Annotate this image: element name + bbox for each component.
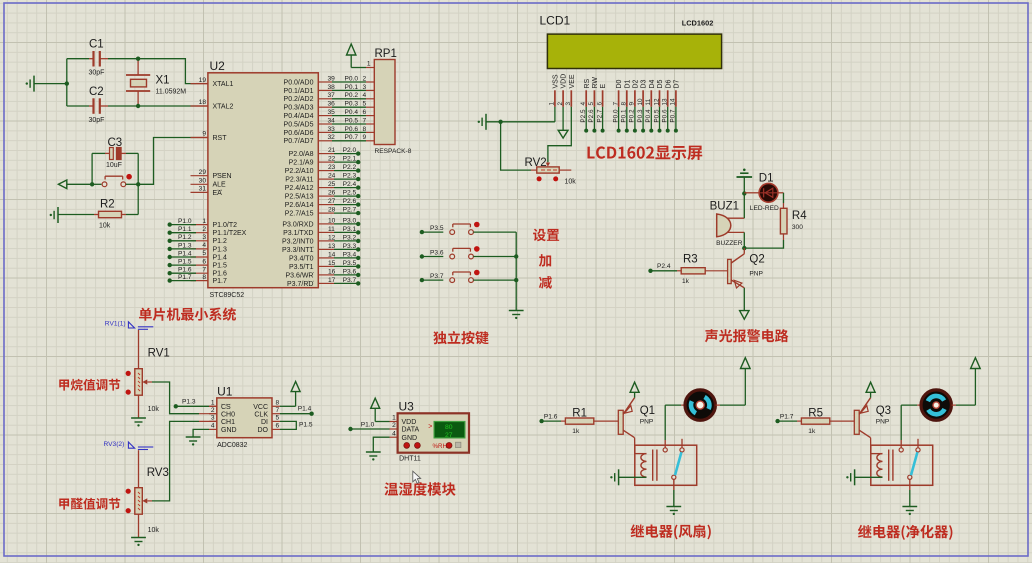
svg-text:10k: 10k <box>148 527 160 534</box>
svg-text:P0.6/AD6: P0.6/AD6 <box>284 130 314 137</box>
svg-text:11.0592M: 11.0592M <box>156 89 187 96</box>
wire buttons common <box>515 232 517 310</box>
ground (ADC) <box>186 437 201 446</box>
wire DHT GND <box>373 437 397 451</box>
svg-text:9: 9 <box>629 102 636 106</box>
svg-text:P1.3: P1.3 <box>213 246 228 253</box>
svg-text:P2.0/A8: P2.0/A8 <box>289 151 314 158</box>
svg-text:D4: D4 <box>649 79 656 88</box>
svg-text:2: 2 <box>363 75 367 82</box>
svg-text:4: 4 <box>202 242 206 249</box>
svg-text:BUZ1: BUZ1 <box>710 201 739 213</box>
svg-text:D7: D7 <box>674 79 681 88</box>
mcu U2 P3 pin names <box>282 221 314 287</box>
pot RV2 buttons <box>537 176 559 181</box>
node C1-X1 <box>136 57 140 61</box>
svg-text:28: 28 <box>328 207 336 214</box>
svg-text:10: 10 <box>637 98 644 106</box>
svg-text:U2: U2 <box>210 59 226 73</box>
svg-text:7: 7 <box>202 266 206 273</box>
svg-text:P2.0: P2.0 <box>343 147 357 154</box>
svg-text:GND: GND <box>402 435 418 442</box>
capacitor C2 <box>67 86 138 124</box>
resistor R4 <box>780 208 807 234</box>
svg-text:VSS: VSS <box>553 74 560 88</box>
svg-text:P2.6/A14: P2.6/A14 <box>285 202 314 209</box>
resistor R2 <box>94 199 138 230</box>
svg-text:CH1: CH1 <box>221 419 235 426</box>
mcu U2 body <box>208 73 318 288</box>
node reset right <box>136 182 140 186</box>
svg-text:P1.6: P1.6 <box>213 271 228 278</box>
wire C3 right down <box>137 153 139 184</box>
dht U3 body <box>398 413 469 452</box>
wire CLK P1.4 <box>280 406 314 416</box>
svg-text:8: 8 <box>621 102 628 106</box>
svg-text:1: 1 <box>367 61 371 68</box>
svg-text:6: 6 <box>596 102 603 106</box>
wire P1.0-DATA <box>351 428 398 430</box>
relay body <box>635 445 697 485</box>
svg-text:32: 32 <box>328 134 336 141</box>
svg-text:Q2: Q2 <box>749 254 764 266</box>
motor <box>921 390 951 420</box>
svg-text:P3.7: P3.7 <box>343 277 357 284</box>
svg-text:P3.6/WR: P3.6/WR <box>285 272 313 279</box>
svg-text:%RH: %RH <box>433 443 447 450</box>
svg-text:RST: RST <box>213 135 228 142</box>
resistor R3 <box>651 254 728 286</box>
svg-text:>: > <box>428 424 432 431</box>
svg-text:4: 4 <box>211 423 215 430</box>
svg-text:24: 24 <box>328 173 336 180</box>
svg-text:3: 3 <box>211 415 215 422</box>
svg-text:P1.5: P1.5 <box>213 263 228 270</box>
ground (relay coil) <box>846 469 882 485</box>
svg-text:P1.7: P1.7 <box>178 274 192 281</box>
svg-text:10k: 10k <box>565 179 577 186</box>
svg-text:R4: R4 <box>792 210 807 222</box>
svg-text:RV1: RV1 <box>148 348 170 360</box>
svg-text:BUZZER: BUZZER <box>716 240 743 247</box>
wire relay common to ground <box>673 490 675 506</box>
svg-text:P3.5: P3.5 <box>430 225 444 232</box>
svg-text:PSEN: PSEN <box>213 173 232 180</box>
svg-text:300: 300 <box>792 224 803 231</box>
svg-text:36: 36 <box>328 101 336 108</box>
svg-text:PNP: PNP <box>640 419 654 426</box>
label JiaWan <box>59 379 120 391</box>
svg-text:10k: 10k <box>148 406 160 413</box>
label LCD1602 caption <box>587 146 702 160</box>
wire Q2 emitter down <box>743 288 745 311</box>
svg-text:8: 8 <box>276 400 280 407</box>
wire RP1 pin1 <box>351 67 374 69</box>
svg-text:30pF: 30pF <box>89 117 105 124</box>
push button reset <box>92 174 132 187</box>
svg-text:P3.0/RXD: P3.0/RXD <box>282 221 313 228</box>
svg-text:6: 6 <box>202 258 206 265</box>
svg-text:D5: D5 <box>657 79 664 88</box>
svg-text:80: 80 <box>445 424 453 431</box>
svg-text:14: 14 <box>670 98 677 106</box>
svg-text:U1: U1 <box>217 385 233 399</box>
wire RV3 top <box>138 450 140 488</box>
svg-text:D0: D0 <box>616 79 623 88</box>
wire R2 up <box>137 184 139 214</box>
wire XTAL1 pin stub <box>196 83 208 85</box>
svg-text:P1.4: P1.4 <box>298 406 312 413</box>
svg-text:EA: EA <box>213 190 223 197</box>
mouse cursor <box>413 471 421 483</box>
wire RV2 left <box>501 122 537 170</box>
svg-text:DATA: DATA <box>402 427 420 434</box>
wire RST <box>138 138 208 185</box>
svg-text:X1: X1 <box>156 75 170 87</box>
svg-text:P0.5: P0.5 <box>653 109 660 123</box>
svg-text:P2.5/A13: P2.5/A13 <box>285 194 314 201</box>
wire BUZ bottom <box>743 232 745 248</box>
svg-text:P1.7: P1.7 <box>780 413 794 420</box>
svg-text:P1.5: P1.5 <box>178 259 192 266</box>
svg-text:P3.0: P3.0 <box>343 217 357 224</box>
relay blade <box>675 452 681 475</box>
node btn3 <box>514 278 518 282</box>
svg-text:P2.3/A11: P2.3/A11 <box>285 177 313 184</box>
svg-text:R2: R2 <box>100 199 115 211</box>
svg-text:D1: D1 <box>624 79 631 88</box>
wire D1 to R4 <box>778 193 784 209</box>
pot RV2 body <box>525 157 560 173</box>
svg-text:P1.5: P1.5 <box>299 422 313 429</box>
mcu U2 P2 pin names <box>285 151 314 218</box>
svg-text:P2.1: P2.1 <box>343 156 357 163</box>
svg-text:P0.5: P0.5 <box>345 117 359 124</box>
svg-text:P0.2: P0.2 <box>629 109 636 123</box>
svg-text:7: 7 <box>276 407 280 414</box>
ground arrow (reset) <box>58 180 92 189</box>
pot RV3 <box>126 467 169 534</box>
svg-text:P1.1/T2EX: P1.1/T2EX <box>213 230 247 237</box>
svg-text:PNP: PNP <box>749 271 763 278</box>
svg-text:VEE: VEE <box>569 74 576 88</box>
relay contacts <box>663 439 684 490</box>
svg-text:12: 12 <box>653 98 660 106</box>
svg-text:5: 5 <box>202 250 206 257</box>
wire relay NO up to motor <box>665 405 685 440</box>
svg-text:31: 31 <box>199 186 207 193</box>
wire motor to power <box>716 369 746 406</box>
ground (buttons) <box>509 311 524 320</box>
relay body <box>871 445 933 485</box>
svg-text:P0.6: P0.6 <box>662 109 669 123</box>
node P2.4 <box>648 269 652 273</box>
relay contacts <box>899 439 920 490</box>
label SheZhi <box>533 229 559 242</box>
svg-text:VDD: VDD <box>402 419 417 426</box>
svg-text:RP1: RP1 <box>375 48 397 60</box>
svg-text:XTAL1: XTAL1 <box>213 81 234 88</box>
svg-text:P3.3/INT1: P3.3/INT1 <box>282 247 314 254</box>
svg-text:P0.1: P0.1 <box>345 84 359 91</box>
svg-text:ADC0832: ADC0832 <box>217 442 247 449</box>
svg-text:U3: U3 <box>399 400 415 414</box>
svg-text:D6: D6 <box>665 79 672 88</box>
svg-text:P2.7: P2.7 <box>596 109 603 123</box>
pot RV1 <box>126 348 170 414</box>
svg-text:10k: 10k <box>99 223 111 230</box>
respack RP1 body <box>374 60 395 145</box>
svg-text:2: 2 <box>557 102 564 106</box>
svg-text:GND: GND <box>221 427 237 434</box>
svg-text:RW: RW <box>592 77 599 89</box>
resistor R1 <box>542 408 619 435</box>
pot RV2 wiper arrow <box>546 162 550 166</box>
label ShengGuangBaoJing <box>705 329 789 342</box>
ground (R2) <box>50 207 94 223</box>
svg-text:P0.2/AD2: P0.2/AD2 <box>284 96 314 103</box>
resistor R5 <box>778 408 855 435</box>
wire DI-DO P1.5 <box>280 421 313 429</box>
power symbol (ADC VCC) <box>280 382 300 407</box>
node P1.0 <box>348 427 352 431</box>
svg-text:P0.5/AD5: P0.5/AD5 <box>284 121 314 128</box>
svg-text:37: 37 <box>328 92 336 99</box>
svg-text:P0.7: P0.7 <box>670 109 677 123</box>
svg-text:8: 8 <box>363 126 367 133</box>
svg-text:P2.7/A15: P2.7/A15 <box>285 211 314 218</box>
svg-text:P0.1: P0.1 <box>621 109 628 123</box>
svg-text:VDD: VDD <box>561 74 568 89</box>
svg-text:ALE: ALE <box>213 182 227 189</box>
svg-text:4: 4 <box>392 430 396 437</box>
svg-text:RV1(1): RV1(1) <box>105 321 126 328</box>
svg-text:XTAL2: XTAL2 <box>213 103 234 110</box>
svg-text:P0.7/AD7: P0.7/AD7 <box>284 138 314 145</box>
svg-text:P0.0/AD0: P0.0/AD0 <box>284 79 314 86</box>
buzzer BUZ1 <box>710 201 745 248</box>
wires P2.0-P2.7 with node dots <box>318 147 360 215</box>
svg-text:P1.7: P1.7 <box>213 278 228 285</box>
label Jia <box>539 254 551 267</box>
svg-text:C1: C1 <box>89 39 104 51</box>
ground (DHT) <box>366 452 381 461</box>
svg-text:P3.3: P3.3 <box>343 243 357 250</box>
svg-text:9: 9 <box>363 134 367 141</box>
svg-text:PNP: PNP <box>876 419 890 426</box>
svg-text:LED-RED: LED-RED <box>750 205 779 212</box>
svg-text:P2.5: P2.5 <box>580 109 587 123</box>
wire P1.3-CS <box>176 405 217 407</box>
svg-text:P0.2: P0.2 <box>345 92 359 99</box>
svg-text:14: 14 <box>328 251 336 258</box>
svg-text:P2.4/A12: P2.4/A12 <box>285 185 314 192</box>
svg-text:P1.1: P1.1 <box>178 226 192 233</box>
svg-text:LCD1: LCD1 <box>540 14 571 28</box>
capacitor C1 <box>67 39 138 77</box>
node btn2 <box>514 254 518 258</box>
svg-text:11: 11 <box>645 98 652 105</box>
svg-text:Q1: Q1 <box>640 405 655 417</box>
svg-text:P2.7: P2.7 <box>343 207 357 214</box>
svg-text:RS: RS <box>584 78 591 88</box>
wires P3.0-P3.7 with node dots <box>318 217 360 285</box>
svg-text:5: 5 <box>588 102 595 106</box>
svg-text:38: 38 <box>328 84 336 91</box>
wire DHT VDD stub <box>390 421 398 423</box>
wire VEE to RV2 <box>548 107 571 162</box>
svg-text:P1.3: P1.3 <box>182 399 196 406</box>
wire C3 left down <box>91 153 93 184</box>
svg-text:VCC: VCC <box>253 404 268 411</box>
svg-text:P2.4: P2.4 <box>657 263 671 270</box>
svg-text:R3: R3 <box>683 254 698 266</box>
lcd screen body <box>547 34 721 68</box>
svg-text:30: 30 <box>199 178 207 185</box>
svg-text:P2.6: P2.6 <box>343 198 357 205</box>
svg-text:7: 7 <box>363 117 367 124</box>
svg-text:P3.7/RD: P3.7/RD <box>287 281 313 288</box>
svg-text:10uF: 10uF <box>106 162 122 169</box>
node junction left <box>65 81 69 85</box>
svg-text:1: 1 <box>549 102 556 106</box>
svg-text:P0.4: P0.4 <box>645 109 652 123</box>
svg-text:P3.5: P3.5 <box>343 260 357 267</box>
ground (relay) <box>902 507 917 516</box>
svg-text:P1.4: P1.4 <box>213 254 228 261</box>
svg-text:10: 10 <box>328 217 336 224</box>
svg-text:DO: DO <box>258 427 269 434</box>
wire ADC GND <box>193 429 209 436</box>
wire RV1 bottom <box>138 395 140 417</box>
label WenShiDu <box>384 482 455 496</box>
svg-text:9: 9 <box>202 131 206 138</box>
svg-text:19: 19 <box>199 77 207 84</box>
svg-text:P3.1: P3.1 <box>343 226 357 233</box>
mcu U2 left pins <box>191 77 247 285</box>
wires P0 bus U2-RP1 <box>318 75 374 141</box>
svg-text:15: 15 <box>328 260 336 267</box>
node Q2 collector <box>742 246 746 250</box>
svg-text:STC89C52: STC89C52 <box>210 292 245 299</box>
ground (relay coil) <box>610 469 646 485</box>
svg-text:4: 4 <box>363 92 367 99</box>
svg-text:P1.2: P1.2 <box>213 238 228 245</box>
push buttons P3.5/P3.6/P3.7 <box>420 222 517 283</box>
svg-text:2: 2 <box>392 422 396 429</box>
label JiaQuan <box>59 498 120 510</box>
svg-text:6: 6 <box>276 423 280 430</box>
wire C1-C2 left vertical <box>66 59 68 106</box>
svg-text:P3.2/INT0: P3.2/INT0 <box>282 238 314 245</box>
svg-text:LCD1602: LCD1602 <box>682 19 714 28</box>
svg-text:RV2: RV2 <box>525 157 547 169</box>
transistor Q1 <box>618 398 655 438</box>
dht U3 pin names <box>392 415 419 442</box>
svg-text:27: 27 <box>445 432 453 439</box>
svg-text:1: 1 <box>211 400 215 407</box>
wire XTAL1 <box>138 59 196 84</box>
svg-text:11: 11 <box>328 226 335 233</box>
motor <box>685 390 715 420</box>
wire RV1 wiper to CH0 <box>152 382 217 414</box>
svg-text:3: 3 <box>565 102 572 106</box>
power symbol (motor) <box>971 358 981 369</box>
svg-text:DI: DI <box>261 419 268 426</box>
crystal X1 <box>126 59 186 106</box>
relay coil <box>641 450 657 481</box>
svg-text:21: 21 <box>328 147 336 154</box>
node P1.7 <box>775 419 779 423</box>
node reset left <box>90 182 94 186</box>
ground (RV1) <box>131 418 146 427</box>
svg-text:D2: D2 <box>633 79 640 88</box>
adc U1 body <box>217 398 272 438</box>
label DanPianJi <box>139 307 236 320</box>
svg-text:16: 16 <box>328 268 336 275</box>
wire motor to power <box>952 369 976 406</box>
svg-text:P3.7: P3.7 <box>430 273 444 280</box>
svg-text:P1.0/T2: P1.0/T2 <box>213 222 238 229</box>
svg-text:4: 4 <box>580 102 587 106</box>
svg-text:P2.2: P2.2 <box>343 164 357 171</box>
power symbol (Q1) <box>630 382 639 398</box>
dht buttons <box>404 442 461 450</box>
svg-text:D1: D1 <box>759 173 774 185</box>
wires P1.0-P1.7 with node dots <box>168 218 197 283</box>
svg-text:P0.4: P0.4 <box>345 109 359 116</box>
wire RV3 bottom <box>138 514 140 537</box>
svg-text:CS: CS <box>221 404 231 411</box>
capacitor C3 <box>92 137 138 169</box>
svg-text:2: 2 <box>202 226 206 233</box>
ground (relay) <box>666 507 681 516</box>
svg-text:P1.3: P1.3 <box>178 242 192 249</box>
svg-text:1: 1 <box>392 415 396 422</box>
led D1 <box>744 173 779 213</box>
power symbol (Q3) <box>866 382 875 398</box>
svg-text:DHT11: DHT11 <box>399 456 421 463</box>
wire BUZ top <box>743 194 745 219</box>
adc U1 left pins <box>209 400 237 435</box>
terminal RV1(1) <box>105 321 154 330</box>
ground (LCD VSS) <box>478 107 555 130</box>
svg-text:8: 8 <box>202 274 206 281</box>
svg-text:13: 13 <box>662 98 669 106</box>
label Jian <box>539 276 552 289</box>
power bars (alarm top) <box>737 169 753 194</box>
svg-text:P2.6: P2.6 <box>588 109 595 123</box>
power symbol (DHT VDD) <box>371 398 390 421</box>
svg-text:1k: 1k <box>572 428 580 435</box>
svg-text:P0.3: P0.3 <box>345 101 359 108</box>
power symbol (RP1) <box>347 44 356 68</box>
ground (left of C1/C2) <box>26 76 67 92</box>
svg-text:3: 3 <box>202 234 206 241</box>
svg-text:13: 13 <box>328 243 336 250</box>
node P1.3 <box>174 404 178 408</box>
wire RV2 right stub <box>559 169 571 171</box>
svg-text:P0.3/AD3: P0.3/AD3 <box>284 105 314 112</box>
lcd pins and rotated pin names <box>549 74 681 107</box>
svg-text:P1.4: P1.4 <box>178 250 192 257</box>
svg-text:Q3: Q3 <box>876 405 891 417</box>
svg-text:RV3: RV3 <box>147 467 169 479</box>
svg-text:P1.6: P1.6 <box>178 267 192 274</box>
svg-text:18: 18 <box>199 99 207 106</box>
svg-text:12: 12 <box>328 234 336 241</box>
svg-text:P1.0: P1.0 <box>178 218 192 225</box>
